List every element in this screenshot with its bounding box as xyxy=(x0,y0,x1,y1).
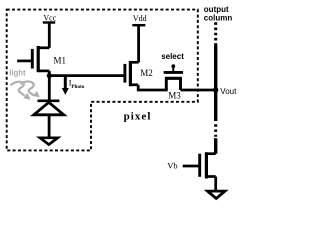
svg-text:pixel: pixel xyxy=(124,110,152,122)
svg-text:column: column xyxy=(204,13,233,22)
svg-text:Vcc: Vcc xyxy=(43,13,56,22)
svg-text:M1: M1 xyxy=(54,55,67,65)
svg-text:M3: M3 xyxy=(168,91,181,101)
svg-text:light: light xyxy=(9,68,26,77)
svg-text:select: select xyxy=(161,52,184,61)
svg-text:Vdd: Vdd xyxy=(133,14,147,23)
svg-text:M2: M2 xyxy=(140,68,153,78)
svg-text:Vout: Vout xyxy=(220,87,237,96)
svg-text:Vb: Vb xyxy=(167,161,177,171)
svg-text:Photo: Photo xyxy=(71,84,84,90)
